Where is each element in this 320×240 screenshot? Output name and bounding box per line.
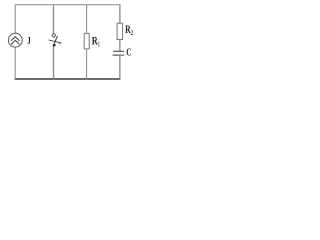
wire left edge upper xyxy=(14,5,16,34)
wire bottom rail xyxy=(15,78,121,80)
capacitor C bottom plate xyxy=(113,54,125,56)
resistor R2 body xyxy=(117,23,123,39)
current source chevron lower xyxy=(11,40,19,44)
switch pivot dot xyxy=(53,44,56,47)
switch motion arrow shaft xyxy=(49,40,59,43)
resistor R1 body xyxy=(84,33,89,49)
svg-text:2: 2 xyxy=(131,28,133,37)
svg-text:C: C xyxy=(126,48,131,59)
svg-text:J: J xyxy=(27,35,31,47)
svg-text:1: 1 xyxy=(98,39,100,48)
wire capacitor to bottom rail xyxy=(119,55,121,80)
current source chevron upper xyxy=(11,37,19,41)
switch arrowhead xyxy=(59,42,62,44)
wire left edge lower xyxy=(14,47,16,79)
wire R1 branch lower xyxy=(86,49,88,80)
wire R2 to capacitor xyxy=(119,40,121,52)
current source J circle xyxy=(8,33,22,47)
wire R1 branch upper xyxy=(86,5,88,34)
wire top rail xyxy=(15,4,121,6)
capacitor C top plate xyxy=(113,50,124,52)
wire R2 branch upper xyxy=(119,5,121,24)
switch open contact circle xyxy=(52,34,55,37)
wire switch branch lower xyxy=(53,47,55,80)
wire switch branch upper xyxy=(53,5,55,34)
switch blade xyxy=(54,36,57,44)
